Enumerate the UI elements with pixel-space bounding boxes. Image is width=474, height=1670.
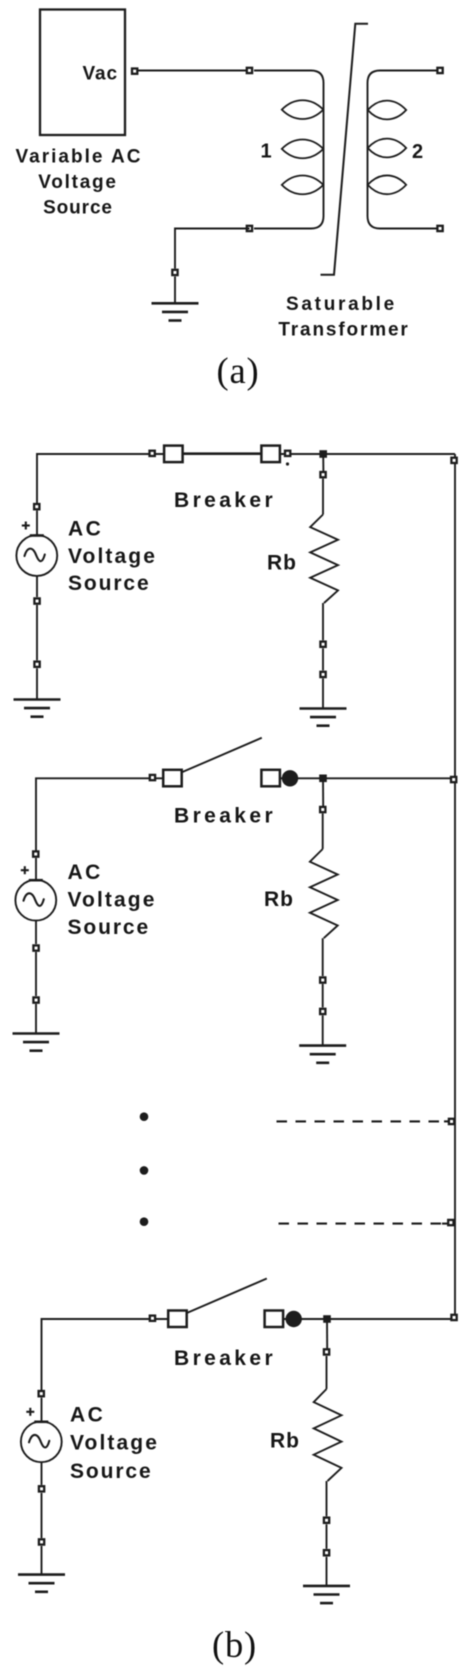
port Rb2 top [320, 807, 325, 812]
plus sign (+ terminal) [22, 522, 30, 530]
ground B3 symbol [18, 1575, 65, 1592]
port Rb2 bottom [320, 977, 325, 982]
port bus bottom corner [451, 1315, 456, 1320]
port B2 Rb ground block terminal [320, 1009, 325, 1014]
wire B2 AC source - lead [35, 920, 37, 944]
plus sign (+ terminal) [21, 866, 29, 874]
wire B2 Rb ground lead [322, 1015, 324, 1045]
svg-text:(a): (a) [217, 350, 260, 391]
svg-text:AC: AC [70, 1404, 105, 1427]
dashed wire to bus (upper) [277, 1120, 449, 1122]
breaker CB3 left terminal [168, 1311, 187, 1328]
winding 1 outline (spine and leads) [254, 71, 324, 229]
winding 2 outline (spine and leads) [368, 71, 438, 229]
wire B1 Rb top lead [322, 479, 324, 515]
port Rb3 bottom [324, 1518, 329, 1523]
svg-text:Transformer: Transformer [278, 320, 409, 341]
svg-text:AC: AC [68, 518, 103, 541]
port B1 Rb ground block terminal [320, 672, 325, 677]
wire B3 ground lead [41, 1546, 43, 1575]
winding 1 petal 3 [282, 176, 324, 195]
breaker CB3 right terminal [265, 1311, 284, 1328]
breaker CB2 left terminal [163, 770, 182, 787]
wire B2 node to Rb port [322, 778, 324, 806]
port B2 breaker input [150, 775, 155, 780]
junction B3 node to Rb [323, 1315, 331, 1323]
wire B1 Rb bottom lead [322, 603, 324, 640]
port Rb1 bottom [320, 642, 325, 647]
wire Vac output to transformer winding 1 top [138, 70, 250, 72]
resistor Rb1 zigzag [310, 515, 338, 604]
wire B3 AC source - lead [41, 1462, 43, 1485]
svg-text:Voltage: Voltage [38, 172, 117, 193]
wire B1 Rb to ground block [322, 648, 324, 670]
port B3 breaker input [150, 1316, 155, 1321]
port B1 ground block terminal [34, 662, 39, 667]
svg-text:(b): (b) [212, 1624, 257, 1665]
port B3 Rb ground block terminal [324, 1550, 329, 1555]
port B1 AC source - terminal [34, 598, 39, 603]
port transformer pin 1+ [247, 68, 252, 73]
port transformer pin 1- [247, 226, 252, 231]
bus: right-hand vertical bus wire [454, 454, 456, 1319]
svg-text:2: 2 [412, 141, 423, 163]
wire B2 ground lead [35, 1004, 37, 1034]
ground B3 Rb ground symbol [303, 1586, 350, 1603]
wire B3 node to bus end [294, 1318, 455, 1320]
port B1 breaker input [150, 451, 155, 456]
winding 1 petal 1 [282, 100, 324, 119]
wire B3 source to ground block [41, 1493, 43, 1538]
svg-text:Voltage: Voltage [68, 889, 157, 912]
stray dot B1 [286, 462, 289, 465]
port bus top corner [451, 458, 456, 463]
svg-text:1: 1 [260, 141, 271, 163]
wire B1 between breaker terminals (closed) [183, 452, 262, 454]
wire B2 Rb top lead [322, 814, 324, 850]
wire to ground symbol [174, 277, 176, 304]
block U1 Variable AC Voltage Source (Vac) [40, 10, 125, 136]
wire B3 to AC source [41, 1398, 43, 1422]
svg-text:Voltage: Voltage [68, 545, 157, 568]
wire B1 source to ground block [36, 605, 38, 660]
port B3 ground block terminal [39, 1539, 44, 1544]
wire B3 top rail left of breaker [42, 1319, 178, 1391]
port B2 AC source + terminal [33, 851, 38, 856]
wire B3 Rb to ground block [326, 1524, 328, 1549]
svg-text:Breaker: Breaker [174, 1347, 276, 1370]
resistor Rb3 zigzag [314, 1389, 342, 1481]
wire B1 to AC source [36, 511, 38, 536]
ellipsis dots (repeated branches) [140, 1112, 149, 1121]
port bus to branch B2 [451, 777, 456, 782]
breaker CB1 right terminal [261, 446, 280, 463]
port Rb1 top [320, 472, 325, 477]
port bus dashed lower [448, 1220, 453, 1225]
svg-text:Voltage: Voltage [70, 1432, 159, 1455]
ground B1 Rb ground symbol [300, 709, 347, 726]
ground G0 symbol [152, 303, 199, 320]
dashed wire to bus (lower) [279, 1223, 447, 1225]
AC Voltage Source V3: circle symbol with sine wave [21, 1421, 62, 1462]
port ground G0 [172, 270, 177, 275]
svg-text:Source: Source [70, 1460, 153, 1483]
svg-text:Breaker: Breaker [174, 489, 276, 512]
wire B1 Rb ground lead [322, 678, 324, 708]
svg-text:Vac: Vac [83, 64, 118, 85]
svg-text:Source: Source [68, 572, 151, 595]
core line [321, 24, 369, 275]
winding 2 petal 3 [368, 175, 407, 194]
port B3 AC source - terminal [39, 1486, 44, 1491]
ground B1 symbol [14, 700, 61, 717]
AC Voltage Source V1: circle symbol with sine wave [16, 535, 57, 576]
wire B2 Rb to ground block [322, 984, 324, 1007]
svg-text:Source: Source [43, 198, 113, 219]
AC Voltage Source V2: circle symbol with sine wave [15, 880, 56, 921]
wire winding 1- to ground G0 [175, 229, 250, 269]
breaker CB3 open blade [187, 1279, 267, 1314]
winding 1 petal 2 [282, 140, 324, 159]
port B1 AC source + terminal [34, 504, 39, 509]
svg-text:AC: AC [68, 861, 103, 884]
wire B2 Rb bottom lead [322, 938, 324, 976]
winding 2 petal 2 [368, 139, 407, 158]
svg-text:Rb: Rb [267, 552, 297, 575]
port B3 AC source + terminal [39, 1391, 44, 1396]
junction dot B2 breaker output node [282, 770, 298, 786]
wire B1 top rail [37, 454, 455, 504]
svg-text:Breaker: Breaker [174, 805, 276, 828]
junction B2 node to Rb [319, 775, 327, 783]
port bus dashed upper [449, 1119, 454, 1124]
ground B2 Rb ground symbol [299, 1046, 346, 1063]
breaker CB1 left terminal [164, 446, 183, 463]
wire B1 node to Rb port [322, 454, 324, 472]
wire B3 Rb ground lead [326, 1557, 328, 1586]
svg-text:Saturable: Saturable [286, 294, 397, 315]
port B2 ground block terminal [33, 997, 38, 1002]
port Rb3 top [324, 1349, 329, 1354]
resistor Rb2 zigzag [310, 849, 338, 938]
junction B1 node to Rb [319, 450, 327, 458]
port B2 AC source - terminal [33, 945, 38, 950]
ground B2 symbol [13, 1034, 60, 1051]
junction dot B3 breaker output node [286, 1311, 302, 1327]
wire B2 source to ground block [35, 952, 37, 996]
wire B1 AC source - lead [36, 576, 38, 598]
wire B2 to AC source [35, 858, 37, 880]
port Vac output [132, 69, 137, 74]
plus sign (+ terminal) [26, 1408, 34, 1416]
wire B3 Rb bottom lead [326, 1481, 328, 1516]
wire B3 breaker output to bus [274, 1318, 448, 1320]
port transformer pin 2+ [437, 68, 442, 73]
svg-text:Variable AC: Variable AC [16, 147, 143, 168]
svg-text:Rb: Rb [270, 1430, 300, 1453]
port B1 breaker output [285, 451, 290, 456]
breaker CB2 open blade [182, 738, 262, 773]
svg-text:Source: Source [68, 916, 151, 939]
wire B3 Rb top lead [326, 1356, 328, 1389]
wire B1 ground lead [36, 668, 38, 699]
wire B2 breaker output to bus [271, 777, 455, 779]
breaker CB2 right terminal [261, 770, 280, 787]
svg-text:Rb: Rb [264, 888, 294, 911]
wire B2 top rail left of breaker [36, 778, 173, 851]
winding 2 petal 1 [368, 101, 407, 120]
port transformer pin 2- [437, 226, 442, 231]
wire B3 node to Rb port [326, 1319, 328, 1349]
